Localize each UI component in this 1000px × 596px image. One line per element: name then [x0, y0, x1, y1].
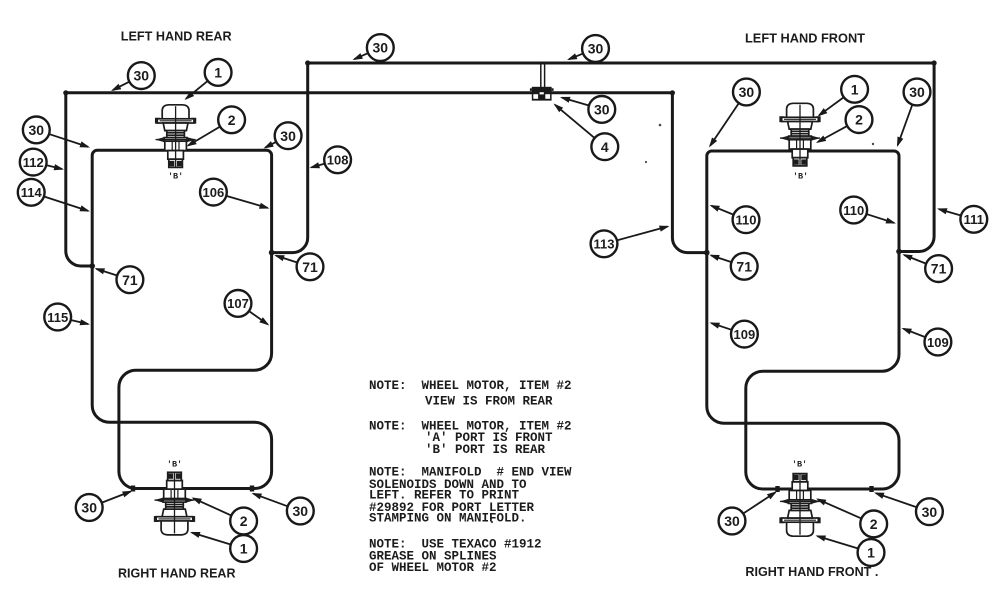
svg-text:'B' PORT IS REAR: 'B' PORT IS REAR	[425, 443, 546, 457]
svg-text:2: 2	[870, 516, 878, 532]
svg-text:LEFT HAND REAR: LEFT HAND REAR	[121, 28, 232, 43]
svg-text:30: 30	[739, 84, 755, 100]
svg-text:'B': 'B'	[792, 460, 807, 470]
svg-text:'B': 'B'	[793, 172, 808, 182]
svg-text:'B': 'B'	[168, 172, 183, 182]
svg-text:2: 2	[228, 112, 236, 128]
svg-text:30: 30	[134, 68, 150, 84]
svg-text:1: 1	[851, 81, 859, 97]
svg-text:107: 107	[227, 296, 249, 311]
svg-text:30: 30	[373, 40, 389, 56]
svg-text:30: 30	[922, 504, 938, 520]
svg-text:111: 111	[964, 212, 984, 227]
svg-text:1: 1	[214, 65, 222, 81]
svg-text:108: 108	[327, 153, 349, 168]
svg-text:'B': 'B'	[167, 460, 182, 470]
svg-text:NOTE: WHEEL MOTOR, ITEM #2: NOTE: WHEEL MOTOR, ITEM #2	[369, 379, 572, 393]
svg-text:115: 115	[47, 310, 68, 325]
svg-text:114: 114	[21, 185, 43, 200]
svg-text:VIEW IS FROM REAR: VIEW IS FROM REAR	[425, 395, 553, 409]
svg-text:RIGHT HAND REAR: RIGHT HAND REAR	[118, 565, 236, 580]
svg-text:30: 30	[909, 84, 925, 100]
svg-text:71: 71	[736, 258, 752, 274]
svg-text:30: 30	[293, 503, 309, 519]
svg-text:30: 30	[588, 41, 604, 57]
svg-text:30: 30	[280, 128, 296, 144]
svg-text:2: 2	[240, 513, 248, 529]
svg-text:2: 2	[855, 112, 863, 128]
svg-text:109: 109	[927, 335, 949, 350]
svg-text:71: 71	[122, 272, 138, 288]
svg-text:4: 4	[601, 139, 609, 155]
svg-text:110: 110	[843, 203, 864, 218]
svg-text:30: 30	[724, 513, 740, 529]
svg-text:112: 112	[23, 155, 44, 170]
svg-text:LEFT HAND FRONT: LEFT HAND FRONT	[745, 31, 865, 46]
svg-text:RIGHT HAND FRONT .: RIGHT HAND FRONT .	[745, 564, 878, 579]
svg-text:71: 71	[302, 259, 318, 275]
svg-text:OF WHEEL MOTOR #2: OF WHEEL MOTOR #2	[369, 561, 497, 575]
svg-text:71: 71	[931, 261, 947, 277]
svg-text:1: 1	[240, 541, 248, 557]
svg-text:113: 113	[594, 237, 615, 252]
svg-text:1: 1	[867, 545, 875, 561]
svg-text:109: 109	[734, 327, 756, 342]
svg-text:110: 110	[736, 213, 757, 228]
svg-text:30: 30	[594, 102, 610, 118]
svg-text:30: 30	[29, 122, 45, 138]
svg-text:30: 30	[81, 500, 97, 516]
svg-text:STAMPING ON MANIFOLD.: STAMPING ON MANIFOLD.	[369, 512, 527, 526]
svg-text:106: 106	[203, 185, 225, 200]
